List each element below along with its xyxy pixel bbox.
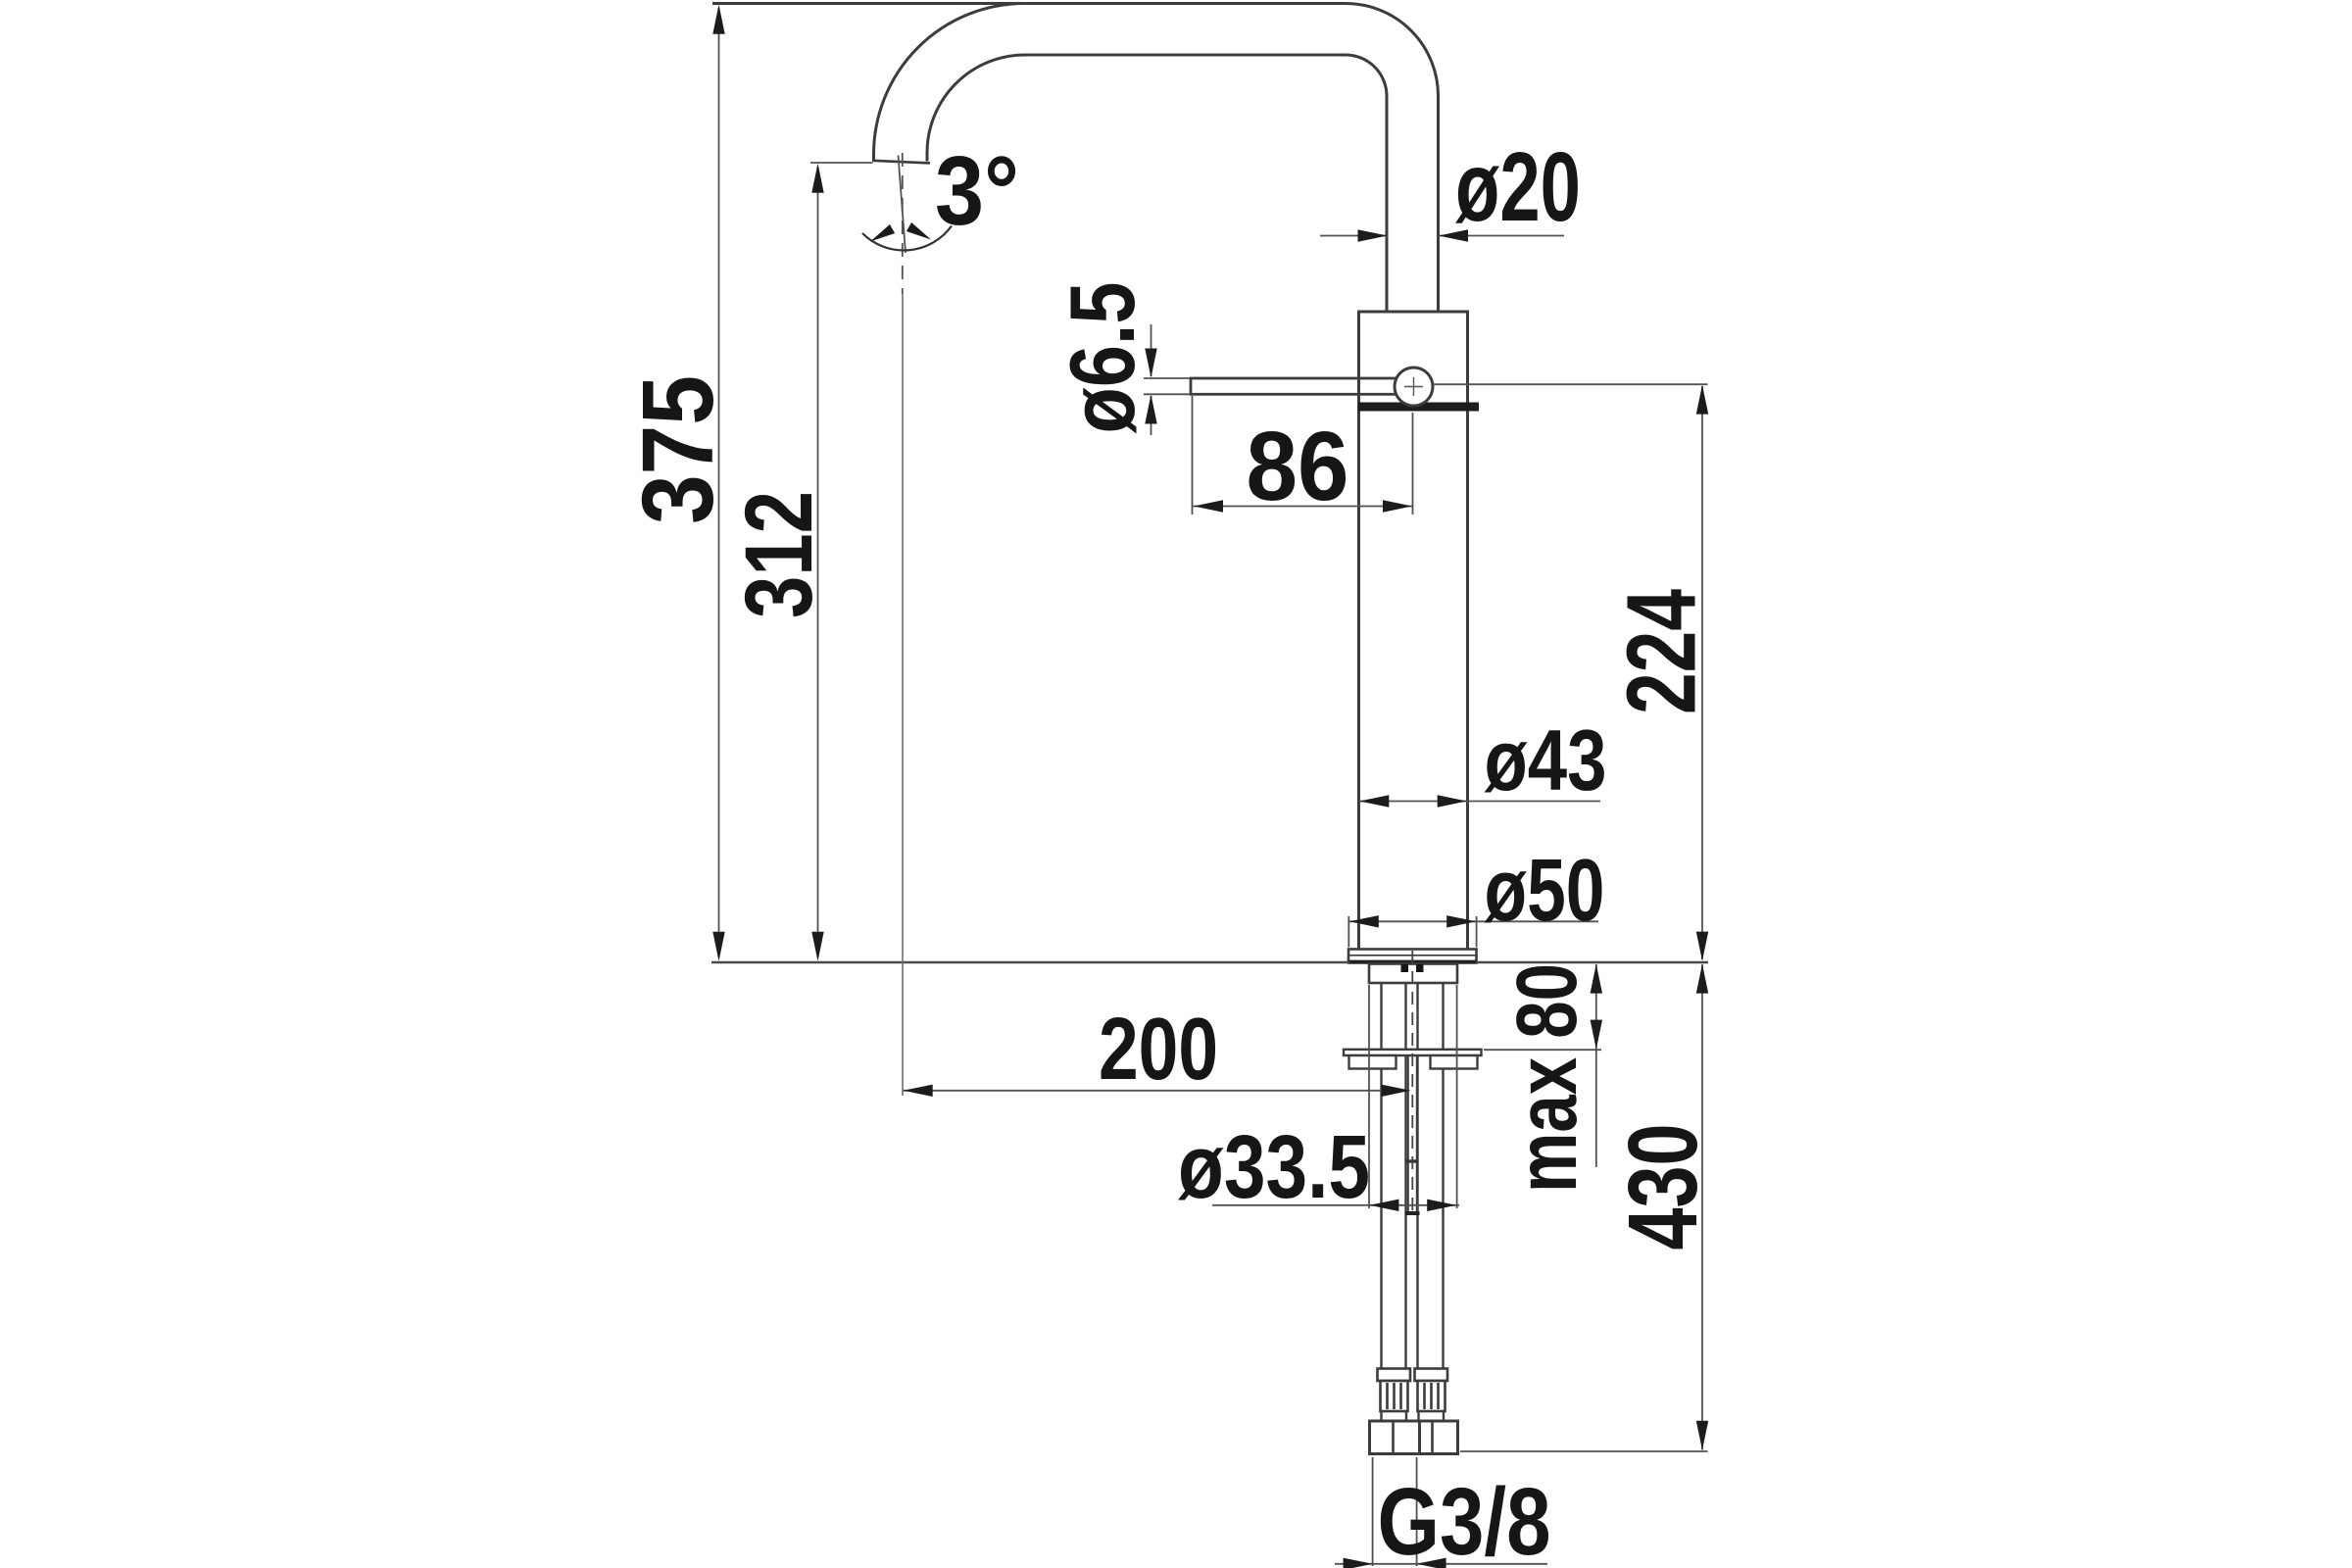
dim 200 arrow left xyxy=(904,1085,933,1097)
dim o6.5 lower segment xyxy=(1151,396,1152,435)
thread mark left xyxy=(1401,964,1409,972)
dim G3/8 arrow right xyxy=(1417,1558,1446,1568)
dim o50 extension left xyxy=(1347,916,1349,948)
supply hose left xyxy=(1382,983,1406,1369)
dim 312 arrow top xyxy=(811,164,823,193)
pivot circle xyxy=(1395,367,1433,406)
outlet tip extension line xyxy=(810,162,873,164)
dim G3/8 extension right xyxy=(1416,1457,1418,1566)
dim o50 line xyxy=(1349,920,1599,922)
hose neck right xyxy=(1419,1411,1445,1421)
dim 200 arrow right xyxy=(1382,1085,1411,1097)
dim o33.5 arrow right xyxy=(1427,1200,1456,1211)
countertop line right xyxy=(1476,961,1708,964)
hose crimp left xyxy=(1381,1381,1408,1411)
dim 430 arrow bottom xyxy=(1696,1421,1708,1450)
dim o20 arrow right xyxy=(1439,229,1468,241)
clamp extension line xyxy=(1484,1049,1601,1051)
crimp hatches left xyxy=(1388,1383,1401,1409)
dim 375 arrow bottom xyxy=(712,932,724,961)
dim G3/8 line xyxy=(1335,1563,1547,1565)
dim o50 arrow left xyxy=(1349,915,1379,927)
dim 312 line xyxy=(817,167,819,957)
threaded shank xyxy=(1369,964,1457,984)
outlet centerline extension xyxy=(902,294,904,1096)
dim o20 arrow left xyxy=(1358,229,1388,241)
countertop line left xyxy=(711,961,1349,964)
dim o33.5 extension left xyxy=(1368,985,1370,1208)
swivel arc arrow right xyxy=(906,222,934,244)
base flange xyxy=(1348,950,1477,963)
svg-text:max 80: max 80 xyxy=(1499,963,1594,1193)
lever bottom extension xyxy=(1144,393,1190,395)
clamp plate xyxy=(1344,1050,1482,1055)
hose crimp right xyxy=(1418,1381,1445,1411)
dim 375 line xyxy=(718,8,720,957)
dim o33.5 arrow left xyxy=(1369,1200,1398,1211)
dim G3/8 extension left xyxy=(1372,1457,1374,1566)
spout inner contour xyxy=(927,55,1387,312)
clamp stud rod xyxy=(1408,1055,1417,1211)
clamp foot left xyxy=(1349,1055,1396,1069)
dim max80 arrow top xyxy=(1591,964,1602,994)
dim 86 arrow right xyxy=(1383,500,1412,512)
dim max80 line xyxy=(1595,964,1597,1167)
dim 86 extension right xyxy=(1412,413,1414,514)
dim o6.5 upper segment xyxy=(1151,324,1152,376)
clamp foot right xyxy=(1431,1055,1478,1069)
dim o50 arrow right xyxy=(1446,915,1476,927)
svg-text:430: 430 xyxy=(1608,1124,1718,1250)
dim o50 extension right xyxy=(1476,916,1478,948)
lever top extension xyxy=(1144,377,1190,379)
hex nut left xyxy=(1370,1421,1420,1454)
dim max80 arrow bottom xyxy=(1591,1020,1602,1050)
dim 430 line xyxy=(1701,964,1703,1450)
svg-text:ø43: ø43 xyxy=(1485,711,1607,808)
dim 224 arrow top xyxy=(1696,385,1708,415)
dim 312 arrow bottom xyxy=(811,932,823,961)
dim 375 arrow top xyxy=(712,5,724,34)
dim G3/8 arrow left xyxy=(1344,1558,1373,1568)
swivel tilted line xyxy=(899,156,906,254)
dim o20 line right xyxy=(1439,235,1564,237)
spout outlet end cap xyxy=(872,161,930,164)
pivot center cross xyxy=(1404,377,1423,396)
thread mark right xyxy=(1416,964,1424,972)
rod mid tick xyxy=(1406,1159,1419,1162)
faucet centerline (dashed) xyxy=(1411,951,1413,1215)
spout outer contour xyxy=(874,4,1439,313)
cartridge cover black band xyxy=(1358,403,1479,412)
svg-text:ø50: ø50 xyxy=(1485,842,1605,940)
svg-text:86: 86 xyxy=(1247,412,1349,521)
nut facet right xyxy=(1431,1421,1434,1454)
dim 224 arrow bottom xyxy=(1696,932,1708,961)
base flange bottom edge xyxy=(1348,960,1477,963)
svg-text:3°: 3° xyxy=(935,136,1019,246)
dim 224 top extension xyxy=(1433,383,1708,385)
dim o20 line left xyxy=(1320,235,1388,237)
svg-text:375: 375 xyxy=(621,375,734,524)
base flange inner line xyxy=(1349,955,1476,956)
svg-text:ø6.5: ø6.5 xyxy=(1051,282,1153,434)
hose collar left xyxy=(1378,1369,1411,1382)
svg-text:312: 312 xyxy=(725,491,832,618)
hose neck left xyxy=(1382,1411,1407,1421)
dim 430 arrow top xyxy=(1696,964,1708,994)
dim o43 arrow left xyxy=(1359,795,1389,807)
swivel arc arrow left xyxy=(867,224,895,246)
dim o6.5 arrow up xyxy=(1145,395,1156,424)
rod end tick xyxy=(1405,1211,1420,1215)
crimp hatches right xyxy=(1425,1383,1439,1409)
swivel arc xyxy=(862,226,952,251)
dim 200 line xyxy=(904,1090,1405,1092)
supply hose right xyxy=(1418,983,1444,1369)
hex nut right xyxy=(1420,1421,1458,1454)
dim 224 line xyxy=(1701,386,1703,959)
dim o43 line xyxy=(1360,801,1601,803)
dim o33.5 extension right xyxy=(1456,985,1458,1208)
dim o33.5 line xyxy=(1212,1204,1459,1206)
dim o6.5 arrow down xyxy=(1145,349,1156,378)
svg-text:224: 224 xyxy=(1607,589,1717,714)
nut facet left xyxy=(1392,1421,1395,1454)
dim o43 arrow right xyxy=(1438,795,1467,807)
body column xyxy=(1359,312,1468,950)
top extension line (375 datum) xyxy=(712,2,1024,5)
svg-text:ø20: ø20 xyxy=(1455,132,1581,242)
svg-text:G3/8: G3/8 xyxy=(1378,1468,1551,1568)
swivel centerline dashed xyxy=(902,153,904,294)
dim 86 extension left xyxy=(1192,396,1194,514)
hose collar right xyxy=(1415,1369,1448,1382)
dim 86 line xyxy=(1193,506,1413,508)
svg-text:ø33.5: ø33.5 xyxy=(1178,1117,1370,1217)
dim 86 arrow left xyxy=(1194,500,1223,512)
svg-text:200: 200 xyxy=(1099,1001,1218,1099)
lever handle xyxy=(1191,378,1414,394)
nut bottom extension line xyxy=(1460,1450,1708,1452)
